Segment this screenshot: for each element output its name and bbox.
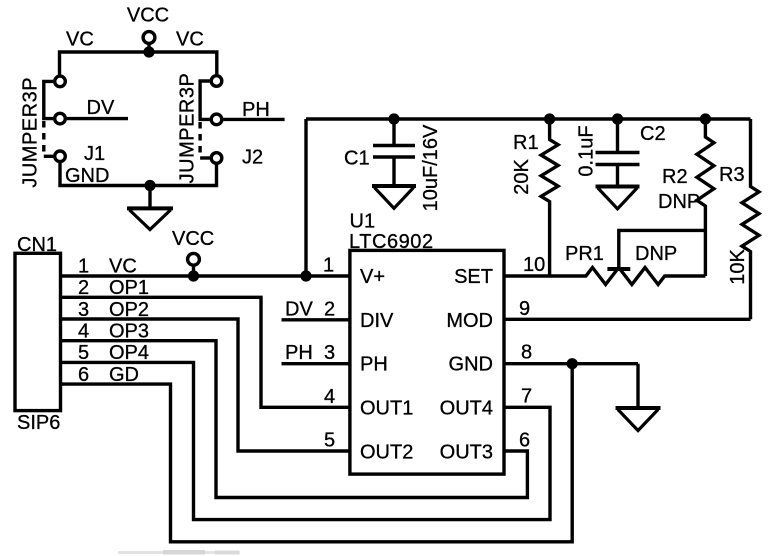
svg-text:OUT1: OUT1 (360, 398, 413, 420)
resistor R2 DNP (658, 113, 714, 276)
svg-text:V+: V+ (360, 266, 385, 288)
IC U1 LTC6902 (349, 210, 504, 474)
svg-text:10uF/16V: 10uF/16V (420, 124, 442, 211)
capacitor C1 10uF/16V (344, 113, 442, 211)
capacitor C2 0.1uF (576, 113, 666, 186)
wire PH net (223, 99, 284, 121)
svg-text:9: 9 (519, 298, 530, 320)
svg-text:1: 1 (78, 255, 89, 277)
wire jumper gnd bus (60, 162, 217, 191)
jumper J2 JUMPER3P (177, 73, 264, 184)
svg-text:8: 8 (521, 342, 532, 364)
svg-text:VC: VC (176, 29, 204, 51)
svg-text:PH: PH (285, 342, 313, 364)
svg-text:PH: PH (242, 99, 270, 121)
svg-text:R3: R3 (719, 164, 745, 186)
svg-text:VC: VC (66, 29, 94, 51)
svg-text:2: 2 (324, 298, 335, 320)
svg-text:C1: C1 (344, 148, 370, 170)
svg-text:SET: SET (454, 266, 493, 288)
wire PR1 wiper to R2 bottom (607, 230, 705, 269)
svg-text:1: 1 (323, 255, 334, 277)
svg-text:5: 5 (324, 430, 335, 452)
svg-text:GND: GND (449, 354, 493, 376)
svg-text:DNP: DNP (635, 243, 677, 265)
resistor R3 10K (719, 119, 759, 319)
svg-text:C2: C2 (640, 123, 666, 145)
wire OP4 (CN1 pin5 to U1 pin7) (61, 362, 551, 519)
pin 2 stub + label DV (282, 298, 350, 320)
svg-text:VCC: VCC (127, 5, 169, 27)
svg-text:10: 10 (523, 254, 545, 276)
pin 3 stub + label PH (282, 342, 350, 364)
svg-text:JUMPER3P: JUMPER3P (20, 77, 42, 188)
svg-text:PR1: PR1 (565, 243, 604, 265)
wire OP2 (CN1 pin3 to U1 pin5) (61, 319, 350, 451)
wire OP3 (CN1 pin4 to U1 pin6) (61, 341, 528, 498)
node V+ junction (300, 270, 311, 281)
wire VCC riser to top rail (304, 119, 307, 276)
svg-text:6: 6 (519, 429, 530, 451)
jumper J1 JUMPER3P (20, 76, 110, 188)
resistor R1 20K (511, 113, 558, 276)
wire DV net (67, 97, 128, 119)
potentiometer PR1 DNP (504, 243, 705, 285)
svg-text:DNP: DNP (658, 191, 700, 213)
svg-text:R2: R2 (662, 166, 688, 188)
wire GND (pin8 to ground) (504, 362, 638, 365)
wire top VCC rail (306, 117, 751, 120)
svg-text:DIV: DIV (360, 310, 394, 332)
wire OP1 (CN1 pin2 to U1 pin4) (61, 297, 350, 407)
ground (below jumpers) (127, 186, 173, 230)
svg-text:JUMPER3P: JUMPER3P (177, 73, 199, 184)
wire VC / V+ (CN1 pin1 to U1 pin1) (61, 274, 350, 277)
svg-text:U1: U1 (350, 210, 376, 232)
svg-text:3: 3 (324, 342, 335, 364)
wire gnd drop (636, 364, 639, 408)
ground (below C1) (372, 186, 416, 208)
svg-text:R1: R1 (513, 132, 539, 154)
bottom cropped text artifact (118, 550, 240, 555)
wire GD (CN1 pin6 to GND net) (61, 364, 573, 542)
node GND junction (567, 358, 578, 369)
svg-text:DV: DV (87, 97, 115, 119)
svg-text:DV: DV (285, 298, 313, 320)
svg-text:GND: GND (65, 165, 109, 187)
connector CN1 SIP6 (15, 234, 149, 434)
svg-text:MOD: MOD (446, 310, 493, 332)
svg-text:PH: PH (360, 354, 388, 376)
wire MOD (pin9 to R3 bottom) (504, 318, 751, 321)
ground (below C2) (596, 187, 640, 209)
svg-text:10K: 10K (727, 249, 749, 285)
svg-text:OUT4: OUT4 (440, 398, 493, 420)
svg-text:20K: 20K (511, 159, 533, 195)
svg-text:VC: VC (109, 255, 137, 277)
ground (right of U1) (616, 408, 661, 431)
svg-text:OUT3: OUT3 (440, 441, 493, 463)
svg-text:7: 7 (521, 386, 532, 408)
wire VC rail (jumper top rail) (60, 29, 217, 76)
svg-text:4: 4 (324, 386, 335, 408)
svg-text:J1: J1 (84, 143, 105, 165)
svg-text:J2: J2 (242, 147, 263, 169)
node VCC (above CN1) (172, 228, 214, 282)
svg-text:OUT2: OUT2 (360, 441, 413, 463)
svg-text:VCC: VCC (172, 228, 214, 250)
node VCC (top, jumpers) (127, 5, 169, 58)
svg-text:0.1uF: 0.1uF (576, 125, 598, 176)
svg-text:SIP6: SIP6 (17, 412, 60, 434)
